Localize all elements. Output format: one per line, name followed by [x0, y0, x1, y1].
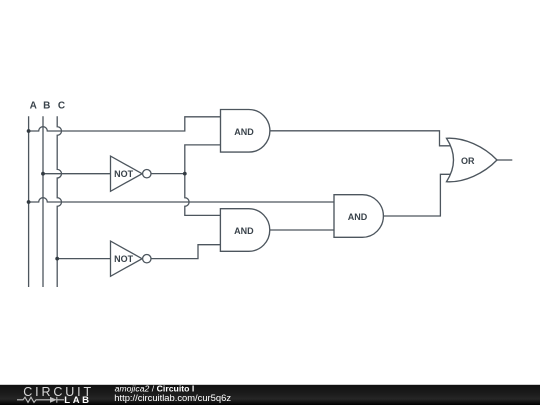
wire: input bus A vertical — [28, 116, 30, 287]
wire: OR output — [497, 159, 512, 161]
AND gate U5 — [334, 195, 383, 238]
AND gate U3 — [221, 110, 270, 153]
wire: net A row 3 to AND3 input 1 (hops over B) — [29, 198, 334, 202]
CircuitLab logo mark: resistor zigzag and diode — [17, 397, 64, 403]
wire: NOT1 output to node N1 — [151, 173, 185, 175]
svg-text:AND: AND — [348, 212, 368, 222]
svg-text:C: C — [58, 100, 65, 111]
wire: AND3 output to OR input 2 — [383, 174, 452, 216]
wire: net B row 2 to NOT1 input — [43, 173, 111, 175]
junction dot: node N1 — [183, 172, 187, 176]
wire: AND1 output to OR input 1 — [270, 131, 453, 146]
svg-text:NOT: NOT — [114, 254, 134, 264]
wire: input bus C vertical (hops over three horizontal wires) — [57, 116, 61, 287]
junction dot: net A at row 1 — [27, 129, 31, 133]
svg-text:A: A — [30, 100, 37, 111]
svg-text:LAB: LAB — [64, 395, 91, 405]
footer bar — [0, 385, 540, 405]
junction dot: net B at row 2 — [41, 172, 45, 176]
wire: net A row 1 to AND1 input 1 (hops over B) — [29, 117, 221, 131]
svg-text:AND: AND — [234, 226, 254, 236]
wire: node N1 up to AND1 input 2 — [185, 145, 221, 174]
wire: NOT2 output to AND2 input 2 — [151, 245, 220, 259]
AND gate U4 — [220, 209, 269, 252]
wire: input bus B vertical — [42, 116, 44, 287]
svg-text:B: B — [43, 100, 50, 111]
svg-text:http://circuitlab.com/cur5q6z: http://circuitlab.com/cur5q6z — [114, 392, 231, 403]
NOT gate U2 — [111, 241, 152, 276]
wire: AND2 output to AND3 input 2 — [270, 229, 334, 231]
NOT gate U1 — [111, 156, 152, 191]
svg-text:AND: AND — [234, 127, 254, 137]
junction dot: net A at row 3 — [27, 200, 31, 204]
OR gate U6 — [447, 138, 498, 182]
svg-text:NOT: NOT — [114, 169, 134, 179]
wire: node N1 down to AND2 input 1 (hops over row 3) — [185, 174, 221, 216]
wire: net C row 4 to NOT2 input — [57, 258, 110, 260]
junction dot: net C at row 4 — [55, 257, 59, 261]
svg-text:OR: OR — [461, 156, 475, 166]
